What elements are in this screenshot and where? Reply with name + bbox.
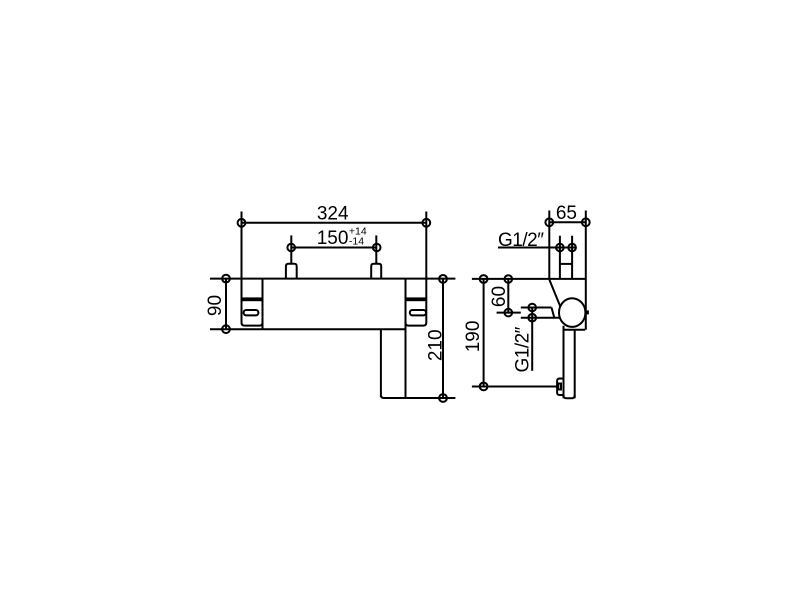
wire: side pipe right edge bbox=[574, 330, 576, 398]
wire: outlet stub top edge bbox=[521, 307, 552, 309]
terminator circle 190 top bbox=[480, 275, 488, 283]
leader line G1/2 top bbox=[498, 247, 576, 249]
wire: pipe bottom line with right extension bbox=[381, 395, 456, 398]
wire: outlet stub bottom edge bbox=[521, 317, 560, 319]
terminator circle 210 top bbox=[439, 275, 447, 283]
knob circle (thermostat handle) bbox=[559, 298, 585, 327]
wire: left cap / body divider bbox=[262, 279, 264, 330]
right cap slot bbox=[410, 310, 426, 315]
terminator circle 60 bottom bbox=[505, 309, 513, 317]
terminator circle 65 right bbox=[582, 218, 590, 226]
terminator circle 60 top bbox=[505, 275, 513, 283]
wire: outlet pipe right edge / right cap left edge bbox=[405, 279, 407, 398]
wire: wall back edge / 65 extension bbox=[585, 211, 587, 330]
dimension 90 line bbox=[225, 279, 227, 330]
wire: outlet pipe left edge bbox=[380, 329, 382, 397]
svg-text:210: 210 bbox=[426, 329, 447, 361]
terminator circle G1/2 back pipe bbox=[568, 244, 576, 252]
terminator circle 150 left bbox=[287, 244, 295, 252]
wire: front slant to knob bbox=[549, 280, 560, 307]
safety button tab bbox=[586, 310, 589, 314]
svg-text:60: 60 bbox=[489, 286, 510, 307]
terminator circle 324 right bbox=[422, 219, 430, 227]
terminator circle G1/2 stub top bbox=[528, 304, 536, 312]
inlet stub left (top connection) bbox=[286, 264, 297, 279]
leader line G1/2 bottom (vertical) bbox=[531, 308, 533, 371]
svg-text:-14: -14 bbox=[349, 236, 364, 248]
extension line stub1 bbox=[290, 235, 292, 263]
terminator circle G1/2 front pipe bbox=[556, 244, 564, 252]
wire: body bottom line with left extension bbox=[210, 328, 405, 330]
terminator circle 150 right bbox=[373, 244, 381, 252]
inlet stub right (top connection) bbox=[371, 264, 381, 279]
terminator circle 190 bottom bbox=[480, 383, 488, 391]
wire: side pipe left edge bbox=[563, 326, 565, 398]
hose nipple outline bbox=[557, 379, 564, 396]
dimension 60 line bbox=[507, 279, 509, 313]
dimension 324 line bbox=[242, 222, 427, 224]
right cap divider band bbox=[406, 297, 427, 301]
dimension 65 line bbox=[549, 221, 586, 223]
dimension 210 line bbox=[442, 279, 444, 398]
hose nipple inner detail bbox=[558, 384, 561, 390]
svg-text:G1/2″: G1/2″ bbox=[498, 230, 544, 251]
extension line stub2 bbox=[375, 235, 377, 263]
extension line 190 bottom bbox=[472, 386, 557, 388]
terminator circle 90 bottom bbox=[222, 325, 230, 333]
terminator circle 324 left bbox=[238, 219, 246, 227]
extension line left for 324 bbox=[241, 212, 243, 279]
wire: wall union pipe back bbox=[571, 236, 573, 279]
wire: body top line with left and right extensions bbox=[210, 278, 455, 280]
left end cap outline bbox=[242, 279, 263, 326]
terminator circle 65 left bbox=[545, 218, 553, 226]
wire: side body bottom line bbox=[564, 329, 586, 331]
terminator circle 90 top bbox=[222, 275, 230, 283]
wire: side pipe bottom bbox=[564, 395, 575, 398]
svg-text:G1/2″: G1/2″ bbox=[513, 326, 534, 372]
wire: outlet stub slant end bbox=[552, 308, 555, 318]
terminator circle 210 bottom bbox=[439, 394, 447, 402]
wire: side body top line with left extension bbox=[472, 278, 586, 280]
wire: wall union pipe front bbox=[559, 236, 561, 279]
left cap slot bbox=[244, 310, 259, 315]
wire: body front edge / 65 extension bbox=[548, 211, 550, 280]
svg-text:190: 190 bbox=[463, 321, 484, 353]
extension line right for 324 bbox=[425, 212, 427, 279]
dimension 190 line bbox=[483, 279, 485, 386]
left cap divider band bbox=[242, 297, 263, 301]
wire: union nut crossbar bbox=[560, 263, 572, 265]
svg-text:90: 90 bbox=[205, 295, 226, 316]
dimension 150 line bbox=[291, 247, 377, 249]
svg-text:150: 150 bbox=[317, 228, 349, 249]
extension line 60 bottom bbox=[497, 312, 521, 314]
terminator circle G1/2 stub bottom bbox=[528, 314, 536, 322]
right end cap outline bbox=[406, 279, 427, 326]
svg-text:65: 65 bbox=[556, 203, 577, 224]
svg-text:324: 324 bbox=[317, 203, 349, 224]
